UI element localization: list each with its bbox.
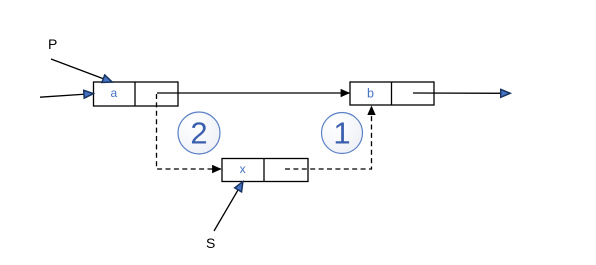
svg-text:x: x — [240, 162, 246, 176]
svg-text:P: P — [48, 36, 57, 52]
svg-text:2: 2 — [190, 116, 207, 151]
svg-text:a: a — [110, 86, 117, 100]
svg-text:S: S — [206, 235, 215, 251]
svg-text:1: 1 — [333, 116, 350, 151]
svg-text:b: b — [367, 87, 374, 101]
